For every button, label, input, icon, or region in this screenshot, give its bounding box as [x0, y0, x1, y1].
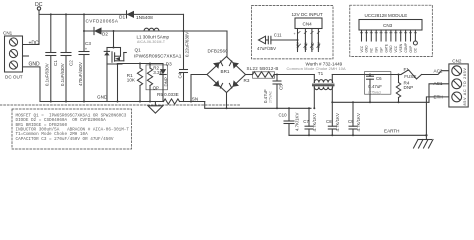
wire Q1 body rail to GND rail — [106, 64, 108, 102]
dashed box UCC28128 MODULE — [350, 5, 433, 56]
capacitor C10 — [279, 107, 300, 135]
connector CN3 — [359, 20, 422, 31]
svg-text:C2: C2 — [68, 60, 73, 66]
svg-text:ISP: ISP — [379, 47, 383, 52]
svg-text:IPW65R095C7XK5A1: IPW65R095C7XK5A1 — [134, 53, 182, 58]
svg-text:(275vac): (275vac) — [368, 90, 381, 94]
svg-text:C11: C11 — [274, 32, 282, 37]
wire ISN jog down — [205, 102, 311, 109]
wire CN1 +DC stub — [23, 44, 40, 46]
svg-text:C10: C10 — [279, 112, 288, 117]
svg-text:D2: D2 — [102, 32, 108, 37]
svg-text:ETH: ETH — [434, 95, 443, 100]
svg-text:AC1: AC1 — [434, 81, 443, 86]
svg-text:C9: C9 — [348, 119, 354, 124]
svg-text:0.1uF/630V: 0.1uF/630V — [45, 63, 50, 86]
svg-text:ISN: ISN — [375, 46, 379, 52]
svg-text:DNP: DNP — [404, 85, 414, 90]
wire CN1 GND to GND rail — [23, 67, 41, 102]
svg-text:4.7K/1KV: 4.7K/1KV — [295, 113, 300, 131]
CN4 pin hatch ticks — [297, 32, 320, 48]
svg-text:1N5408: 1N5408 — [136, 15, 153, 21]
svg-text:CN4: CN4 — [303, 22, 313, 27]
wire boost node rail — [84, 30, 227, 32]
notes text — [16, 113, 130, 141]
svg-text:0.1uF/630V: 0.1uF/630V — [60, 63, 65, 86]
svg-text:C8: C8 — [326, 119, 332, 124]
svg-text:GATE: GATE — [384, 44, 388, 52]
resistor R1 10K — [127, 63, 143, 103]
svg-text:C7: C7 — [303, 119, 309, 124]
CN3 pins — [360, 30, 418, 53]
transistor Q1 MOSFET — [104, 30, 182, 103]
svg-text:D3: D3 — [166, 62, 172, 67]
svg-text:0.47uF: 0.47uF — [263, 89, 268, 103]
resistor R4 DNP — [396, 74, 413, 104]
svg-text:VSEN: VSEN — [399, 43, 403, 52]
svg-text:GND: GND — [389, 45, 393, 53]
wire AC1 — [429, 84, 449, 103]
wire bridge left to GND rail — [191, 75, 207, 102]
svg-text:DC OUT: DC OUT — [5, 75, 23, 80]
svg-text:GND: GND — [365, 45, 369, 53]
svg-text:AICA-06-301M-T: AICA-06-301M-T — [137, 40, 166, 44]
CN3 pin ticks — [360, 32, 416, 34]
svg-text:C4: C4 — [178, 72, 183, 78]
thermistor R3 SL22 5R012-B — [244, 66, 315, 83]
svg-text:C6: C6 — [376, 76, 382, 81]
svg-text:+DC: +DC — [29, 41, 40, 47]
svg-text:470uF/450V: 470uF/450V — [78, 62, 83, 86]
node DC — [35, 2, 43, 10]
resistor R2 3.3E — [147, 63, 162, 103]
svg-text:GND: GND — [310, 42, 314, 50]
earth symbol — [414, 135, 434, 148]
connector CN1 — [3, 31, 23, 80]
svg-text:GND: GND — [97, 95, 108, 100]
svg-text:CN3: CN3 — [383, 23, 393, 28]
svg-text:ISN: ISN — [191, 96, 199, 101]
svg-text:VCC: VCC — [394, 45, 398, 52]
svg-text:EARTH: EARTH — [384, 129, 400, 134]
svg-text:C5: C5 — [278, 84, 283, 90]
svg-text:0.22uF/630V: 0.22uF/630V — [184, 32, 189, 57]
svg-text:C1: C1 — [53, 60, 58, 66]
svg-text:AC2: AC2 — [434, 68, 443, 73]
diode D1 1N5408 — [119, 11, 153, 21]
svg-text:BR1: BR1 — [221, 69, 230, 74]
diode D3 DNP — [160, 62, 172, 102]
svg-text:DNP: DNP — [164, 77, 169, 86]
wire bridge top to boost rail — [226, 31, 228, 57]
capacitor C3 — [78, 13, 92, 102]
fuse F1 — [332, 67, 449, 79]
capacitor C7 — [303, 107, 317, 136]
svg-text:+: + — [85, 46, 88, 51]
svg-text:NC: NC — [370, 47, 374, 52]
dashed divider line — [0, 104, 240, 106]
svg-text:12V DC INPUT: 12V DC INPUT — [292, 12, 323, 17]
svg-text:OVP: OVP — [409, 46, 413, 53]
wire EARTH — [289, 134, 426, 136]
wire +DC top rail — [39, 13, 184, 15]
svg-text:CN2: CN2 — [452, 59, 462, 64]
svg-text:CN1: CN1 — [3, 31, 13, 36]
svg-text:47uF/35V: 47uF/35V — [257, 46, 276, 51]
svg-text:VCC: VCC — [360, 45, 364, 52]
wire Q1 source to R1 R2 — [118, 63, 164, 65]
capacitor C1 — [45, 13, 59, 102]
svg-text:COMP: COMP — [404, 43, 408, 53]
svg-text:4.7K/1KV: 4.7K/1KV — [312, 113, 317, 131]
diode D2 CVFD20065A — [86, 19, 119, 37]
svg-text:CVFD20065A: CVFD20065A — [86, 19, 119, 24]
svg-text:FUSE: FUSE — [404, 74, 416, 79]
connector CN4 — [295, 18, 322, 52]
svg-text:SL22 5B012-B: SL22 5B012-B — [247, 66, 279, 71]
capacitor C4 with top-rail corner — [178, 14, 190, 101]
wire AC neutral lower — [332, 101, 429, 103]
svg-text:OP: OP — [153, 85, 159, 90]
capacitor C9 — [348, 101, 361, 136]
svg-text:R3: R3 — [244, 78, 250, 83]
wire ETH — [426, 97, 449, 135]
svg-text:DC: DC — [414, 47, 418, 52]
svg-text:DFB2560: DFB2560 — [208, 49, 229, 54]
svg-text:4.7K/1KV: 4.7K/1KV — [335, 113, 340, 131]
junction T1 left bottom — [313, 107, 315, 109]
capacitor C5 0.47uF — [263, 74, 283, 110]
dashed box 12V DC INPUT — [252, 6, 334, 59]
connector CN2 — [449, 59, 468, 107]
svg-text:R5 0.033E: R5 0.033E — [157, 92, 179, 97]
inductor L1 — [137, 28, 170, 44]
wire GND rail — [40, 101, 164, 103]
capacitor C6 0.47uF X2 — [365, 72, 391, 104]
svg-text:GND: GND — [304, 42, 308, 50]
svg-text:Q1: Q1 — [135, 48, 142, 53]
transformer T1 common mode choke — [287, 62, 347, 109]
resistor R5 0.033E in GND rail — [157, 92, 205, 104]
svg-text:D1: D1 — [119, 15, 125, 21]
svg-text:+: + — [294, 32, 296, 36]
svg-text:85V AC TO 265V: 85V AC TO 265V — [463, 67, 467, 105]
capacitor C2 — [60, 13, 74, 102]
capacitor C8 — [326, 102, 340, 136]
svg-text:UCC28128 MODULE: UCC28128 MODULE — [365, 13, 408, 18]
wire bridge bottom to DC- wire — [226, 93, 228, 109]
ground symbol (open triangle) — [148, 102, 163, 114]
svg-text:L1 300uH 5Amp: L1 300uH 5Amp — [137, 35, 170, 40]
wire CN1 pin2 stub — [23, 55, 29, 57]
svg-text:T1: T1 — [318, 71, 324, 76]
capacitor C11 47uF/35V — [257, 32, 299, 51]
svg-text:275VAC: 275VAC — [269, 90, 273, 103]
bridge BR1 DFB2560 — [207, 49, 246, 93]
notes dashed box — [12, 109, 132, 149]
svg-text:CAPACITOR C3 = 270uF/450V OR 4: CAPACITOR C3 = 270uF/450V OR 47UF/450V — [16, 137, 114, 142]
svg-text:0.47uF: 0.47uF — [368, 84, 382, 89]
DNP option box OP — [146, 65, 167, 90]
svg-text:Common Mode Choke 2MH 10A: Common Mode Choke 2MH 10A — [287, 66, 347, 71]
svg-text:10K: 10K — [127, 78, 136, 83]
wire DC node down to +DC rail — [38, 10, 40, 44]
svg-text:4.7K/1KV: 4.7K/1KV — [356, 113, 361, 131]
